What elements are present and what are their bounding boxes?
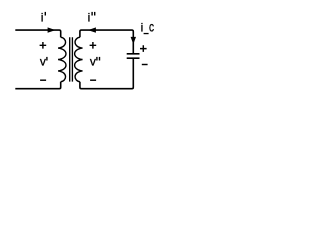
label - primary [40,79,46,81]
wire secondary top lead to capacitor [80,30,133,53]
label - secondary [90,79,96,81]
label + secondary [90,42,97,49]
inductor secondary winding [75,37,83,81]
svg-text:v: v [40,55,46,69]
label + capacitor [140,45,147,52]
svg-text:i: i [41,11,44,25]
label - capacitor [142,64,148,66]
wire capacitor bottom to secondary [80,58,133,88]
inductor primary winding [58,37,66,81]
transformer core [70,37,73,81]
arrow i'' current [88,27,96,32]
arrow i' current [48,27,56,32]
svg-text:i: i [88,11,91,25]
capacitor C plates [127,54,140,58]
wire primary bottom lead [15,82,60,89]
label + primary [40,42,47,49]
svg-text:v: v [90,55,96,69]
wire primary top lead [15,30,60,37]
svg-text:c: c [149,19,154,35]
svg-text:i: i [141,21,144,35]
arrow i_c current [131,37,136,44]
